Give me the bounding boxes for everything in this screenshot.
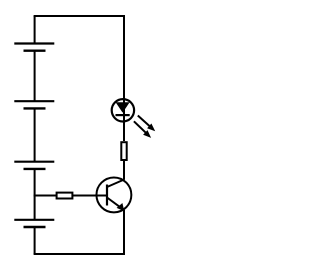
wire top rail	[35, 15, 124, 17]
LED light arrow 1	[138, 116, 155, 132]
battery B1 cell 3	[14, 162, 54, 169]
LED D1	[112, 99, 134, 121]
LED light arrow 2	[134, 121, 151, 138]
battery B1 cell 2	[14, 101, 54, 108]
wire left stem segment 2	[34, 51, 36, 101]
wire emitter to bottom rail	[123, 210, 125, 254]
battery B1 cell 4	[14, 220, 54, 227]
wire left stem segment 5	[34, 227, 36, 254]
wire base tap	[35, 195, 57, 197]
resistor R2 (horizontal)	[57, 193, 73, 199]
wire resistor to collector	[123, 161, 125, 180]
wire left stem segment 3	[34, 108, 36, 161]
wire bottom rail	[35, 253, 124, 255]
resistor R1 (vertical)	[121, 142, 126, 160]
wire left stem segment 4	[34, 169, 36, 220]
wire left stem segment 1	[34, 16, 36, 44]
wire base lead	[73, 195, 107, 197]
wire right branch through LED	[123, 16, 125, 141]
transistor Q1	[96, 177, 131, 212]
battery B1 cell 1	[14, 44, 54, 51]
